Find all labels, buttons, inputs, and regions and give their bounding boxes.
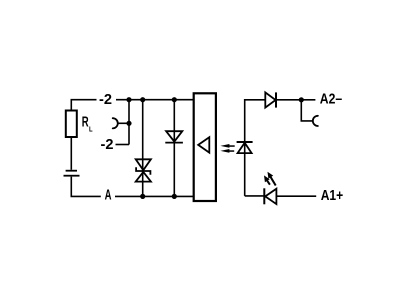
TVS suppressor lower triangle bbox=[136, 172, 151, 182]
junction diode top bbox=[172, 97, 177, 102]
junction contact branch bbox=[126, 121, 131, 126]
wire top rail to coupler box bbox=[116, 99, 194, 101]
wire battery to bottom rail bbox=[71, 177, 101, 197]
LED light arrow right bbox=[268, 172, 276, 186]
wire vertical contact branch bbox=[128, 100, 130, 145]
diode D2 cathode bar bbox=[275, 92, 277, 107]
junction top of contact branch bbox=[126, 97, 131, 102]
svg-text:-2: -2 bbox=[101, 136, 114, 153]
wire D2 to A2 terminal bbox=[276, 99, 315, 101]
LED emitter triangle bbox=[238, 143, 252, 153]
output stage box U1 bbox=[194, 93, 216, 201]
wire A2 contact stub bbox=[301, 100, 313, 121]
svg-text:-2: -2 bbox=[99, 91, 112, 108]
TVS suppressor zener bar bbox=[136, 167, 150, 175]
receiver triangle in box bbox=[198, 137, 209, 152]
light arrow lower (to receiver) bbox=[220, 149, 234, 153]
junction diode bottom bbox=[172, 194, 177, 199]
contact socket (left, opens left) bbox=[113, 118, 118, 128]
wire top-left (rail -2 to label) bbox=[71, 100, 96, 111]
LED indicator triangle bbox=[265, 189, 276, 204]
wire bottom right to LED indicator bbox=[245, 195, 264, 197]
wire LED to A1 terminal bbox=[277, 195, 317, 197]
wire bottom rail to coupler box bbox=[115, 195, 194, 197]
light arrow upper (to receiver) bbox=[220, 144, 234, 148]
battery B1 (supply) bbox=[66, 170, 77, 172]
wire diode branch vertical bbox=[173, 100, 175, 197]
wire right circuit vertical bbox=[245, 100, 265, 196]
diode D1 triangle bbox=[166, 131, 182, 141]
LED light arrow left bbox=[264, 175, 270, 184]
diode D1 cathode bar bbox=[165, 142, 183, 144]
wire TVS branch vertical bbox=[142, 100, 144, 197]
junction TVS bottom bbox=[140, 194, 145, 199]
wire resistor to battery bbox=[70, 137, 72, 170]
LED emitter (optocoupler) cathode bar bbox=[237, 141, 253, 143]
svg-text:A2–: A2– bbox=[320, 91, 342, 108]
contact socket (right, opens right) bbox=[313, 116, 318, 126]
wire contact stub bbox=[118, 122, 129, 124]
svg-text:R: R bbox=[82, 115, 89, 131]
wire lower -2 to contact branch bbox=[116, 144, 130, 146]
junction TVS top bbox=[140, 97, 145, 102]
junction A2 branch bbox=[299, 97, 304, 102]
LED indicator cathode bar bbox=[263, 188, 265, 204]
svg-text:L: L bbox=[89, 126, 93, 133]
TVS suppressor upper triangle bbox=[136, 159, 151, 170]
label RL bbox=[82, 115, 94, 134]
svg-text:A1+: A1+ bbox=[321, 187, 344, 204]
svg-text:A: A bbox=[105, 186, 112, 203]
diode D2 triangle bbox=[265, 92, 275, 107]
resistor RL bbox=[66, 111, 77, 138]
